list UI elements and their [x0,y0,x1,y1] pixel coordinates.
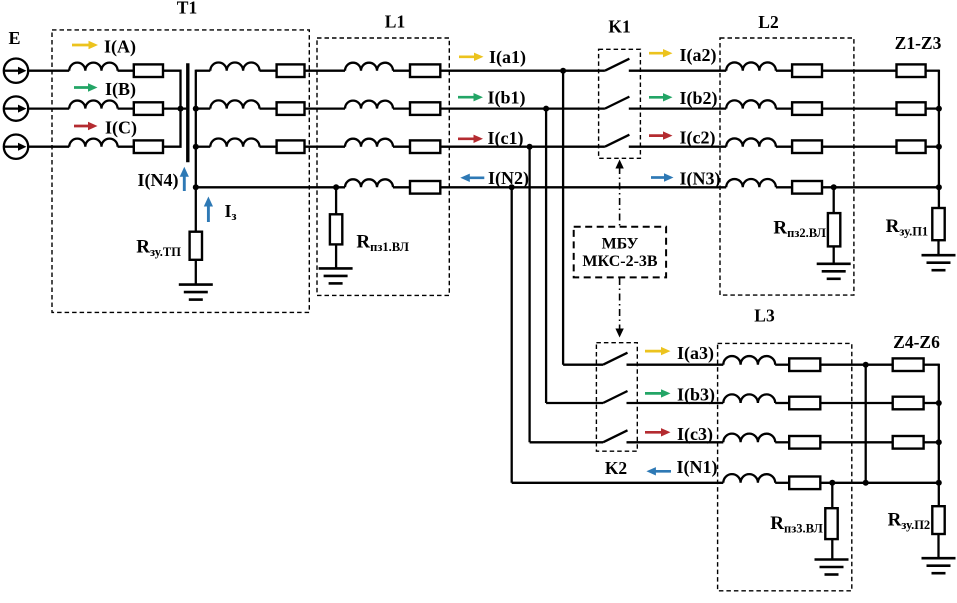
wire c1 from L1 to K1 [440,146,605,148]
svg-text:E: E [8,28,20,48]
resistor T1 secondary phase c [277,140,305,153]
ground T1 substation [179,285,213,300]
junction a1 branch [560,68,566,74]
inductor L2 phase n3 [726,179,776,187]
wire c3 branch to K2 [530,441,603,443]
wire branch b1 down to K2 [545,109,547,403]
wire [393,186,410,188]
wire b3 branch to K2 [546,402,603,404]
wire a2 to Z1 [822,70,897,72]
wire N1 to right bus [820,482,939,484]
svg-text:I(N3): I(N3) [680,169,721,190]
AC source E phase A [4,58,28,82]
resistor T1 secondary phase b [277,102,305,115]
wire [196,107,211,109]
wire a3 to Z4 [820,364,892,366]
transformer T1 core bar [186,63,189,162]
wire b3 to Z5 [820,402,892,404]
junction b1 branch [543,106,549,112]
switch K2 pole c [603,430,628,442]
resistor L2 phase n3 [792,181,822,194]
wire [196,146,211,148]
current arrow I(A) [72,41,98,49]
wire Z5 out [924,402,939,404]
load Z4 [893,358,924,371]
node N4 junction [193,184,199,190]
current arrow I(a1) [459,53,484,61]
wire N3 to right bus [822,186,939,188]
wire N1 row to L3 [512,482,724,484]
wire [775,482,789,484]
current arrow I(N3) [651,173,674,181]
junction bus Z3 [936,144,942,150]
wire node to Rзу.ТП [195,187,197,231]
wire [305,70,346,72]
wire Rпз1.ВЛ to ground [335,244,337,268]
svg-text:I(a3): I(a3) [677,343,714,364]
resistor L1 phase c [410,140,440,153]
wire [775,364,789,366]
switch K2 boundary box [596,343,637,452]
wire [393,146,410,148]
svg-text:I(B): I(B) [105,79,136,100]
wire [196,70,211,72]
AC source E phase C [4,135,28,159]
resistor Rпз1.ВЛ [330,214,342,244]
resistor Rпз2.ВЛ [828,213,840,246]
current arrow I(c3) [645,428,671,436]
svg-text:K2: K2 [605,458,627,478]
junction bus Z2 [936,106,942,112]
current arrow I(b2) [649,93,673,101]
junction secondary bus phase b [193,106,199,112]
current arrow I(c1) [458,135,483,143]
load Z3 [897,140,926,153]
inductor T1 secondary phase b [210,100,259,108]
inductor T1 primary phase C [69,139,117,147]
inductor L3 phase a3 [723,356,775,365]
wire neutral N2-N3 from L1 to L2 [440,186,726,188]
load Z5 [893,397,924,410]
current arrow I(b3) [645,389,671,397]
control line to K1 [615,160,623,227]
wire [775,402,789,404]
wire [260,70,277,72]
wire [775,441,789,443]
wire [118,146,134,148]
current arrow I(N4) [180,167,189,191]
current arrow I(b1) [458,93,483,101]
wire to Rпз2.ВЛ [833,187,835,213]
switch K2 pole a [603,353,628,365]
resistor T1 secondary phase a [277,64,305,77]
svg-text:I(C): I(C) [105,118,137,139]
wire to Rпз1.ВЛ [335,187,337,214]
svg-text:I(N4): I(N4) [138,170,179,191]
junction bus Z6 [936,439,942,445]
wire [118,107,134,109]
wire secondary bus [195,70,197,188]
wire a3 branch to K2 [563,364,603,366]
wire [776,70,792,72]
svg-text:МБУ: МБУ [602,236,639,253]
wire Rзу.П2 to ground [937,534,939,558]
wire Rпз3.ВЛ to ground [831,539,833,559]
junction N1 to Rпз3.ВЛ [829,480,835,486]
transformer T1 boundary box [52,30,309,313]
wire branch a1 down to K2 [562,71,564,365]
wire Z3 out [926,146,939,148]
wire c2 from K1 to L2 [629,146,726,148]
wire primary star bus [163,71,181,147]
current arrow I(c2) [649,131,673,139]
wire [305,107,346,109]
inductor L1 phase a [345,63,393,71]
inductor L1 phase b [345,101,393,109]
svg-text:МКС-2-3В: МКС-2-3В [582,253,658,270]
inductor T1 secondary phase a [210,62,259,70]
wire b1 from L1 to K1 [440,107,605,109]
inductor L3 phase c3 [723,434,775,443]
AC source E phase B [4,96,28,120]
resistor L1 phase n [410,181,440,194]
svg-text:I(b2): I(b2) [680,88,718,109]
wire Z1 out [926,70,939,72]
wire c3 from K2 to L3 [627,441,724,443]
svg-text:Z1-Z3: Z1-Z3 [895,33,942,53]
inductor L2 phase c2 [726,138,776,146]
wire b2 from K1 to L2 [629,107,726,109]
wire to Rпз3.ВЛ [831,483,833,508]
inductor L2 phase b2 [726,100,776,108]
svg-text:I(N2): I(N2) [488,168,529,189]
svg-text:Z4-Z6: Z4-Z6 [893,332,940,352]
inductor L3 phase n1 [723,474,775,483]
junction left bus N1 [863,480,869,486]
wire Z2 out [926,107,939,109]
wire [260,107,277,109]
inductor T1 primary phase B [69,101,117,109]
wire primary phase B to core [163,107,186,109]
line inductance L2 boundary box [720,38,854,295]
svg-text:L1: L1 [385,12,405,32]
inductor L1 phase c [345,139,393,147]
switch K1 boundary box [599,49,641,158]
inductor L3 phase b3 [723,394,775,403]
junction bus N3 [936,184,942,190]
resistor L1 phase a [410,64,440,77]
wire branch N down to N1 row [511,187,513,483]
wire a1 from L1 to K1 [440,70,605,72]
wire Rзу.ТП to ground [195,260,197,285]
resistor L3 phase n1 [789,477,820,490]
resistor Rпз3.ВЛ [825,508,837,539]
junction neutral to Rпз1.ВЛ [333,184,339,190]
svg-text:L2: L2 [758,12,778,32]
resistor T1 primary phase C [134,140,163,153]
switch K1 pole b [605,97,630,109]
wire [118,70,134,72]
resistor T1 primary phase A [134,64,163,77]
svg-text:I(c1): I(c1) [488,128,524,149]
wire right bus load 2 [938,364,940,507]
wire b3 from K2 to L3 [627,402,724,404]
inductor T1 primary phase A [69,63,117,71]
wire phase B source to T1 [28,107,69,109]
ground Rзу.П2 [922,558,956,573]
resistor L2 phase b2 [792,102,822,115]
current arrow I(a2) [649,49,673,57]
line inductance L3 boundary box [718,343,852,590]
wire [776,107,792,109]
svg-text:T1: T1 [177,0,197,18]
resistor L1 phase b [410,102,440,115]
wire [776,186,792,188]
control line to K2 [615,278,623,338]
junction left bus a3 [863,362,869,368]
wire Z6 out [924,441,939,443]
resistor Rзу.П2 [932,506,944,534]
svg-text:I(A): I(A) [104,37,136,58]
wire c3 to Z6 [820,441,892,443]
line inductance L1 boundary box [317,38,449,295]
svg-text:L3: L3 [754,306,775,326]
wire phase A source to T1 [28,70,69,72]
wire branch c1 down to K2 [528,147,530,443]
svg-text:I(N1): I(N1) [677,457,718,478]
current arrow I(N2) [460,174,484,182]
svg-text:I(c3): I(c3) [677,424,713,445]
resistor Rзу.ТП [190,232,202,260]
switch K2 pole b [603,391,628,403]
wire Rпз2.ВЛ to ground [833,246,835,263]
wire left bus a3 to N1 [865,365,867,483]
junction c1 branch [527,144,533,150]
control unit МБУ МКС-2-3В box [574,227,666,278]
svg-text:K1: K1 [608,17,630,37]
load Z6 [893,436,924,449]
junction N3 to Rпз2.ВЛ [831,184,837,190]
resistor L3 phase c3 [789,436,820,449]
wire [260,146,277,148]
svg-text:I(a1): I(a1) [489,47,526,68]
wire [776,146,792,148]
resistor T1 primary phase B [134,102,163,115]
current arrow I3 [204,197,213,223]
svg-text:I(b3): I(b3) [677,385,715,406]
svg-text:I(a2): I(a2) [680,45,717,66]
switch K1 pole c [605,135,630,147]
current arrow I(C) [74,122,98,130]
junction N2 branch [509,184,515,190]
current arrow I(N1) [646,467,671,475]
current arrow I(B) [74,83,98,91]
wire Rзу.П1 to ground [937,240,939,255]
wire [393,70,410,72]
ground Rпз3.ВЛ [815,560,849,575]
svg-text:I(b1): I(b1) [488,88,526,109]
switch K1 pole a [605,59,630,71]
wire a3 from K2 to L3 [627,364,724,366]
load Z1 [897,64,926,77]
wire neutral N to L1 [196,186,345,188]
wire phase C source to T1 [28,146,69,148]
ground Rзу.П1 [922,255,956,270]
inductor L1 phase n [345,179,393,187]
resistor L2 phase c2 [792,140,822,153]
wire b2 to Z2 [822,107,897,109]
inductor L2 phase a2 [726,62,776,70]
junction primary star point [178,106,184,112]
resistor L3 phase b3 [789,397,820,410]
ground Rпз1.ВЛ [319,268,353,283]
wire a2 from K1 to L2 [629,70,726,72]
wire right bus load 1 [938,70,940,208]
resistor L3 phase a3 [789,358,820,371]
svg-text:I(c2): I(c2) [680,128,716,149]
inductor T1 secondary phase c [210,138,259,146]
ground Rпз2.ВЛ [817,264,851,279]
resistor L2 phase a2 [792,64,822,77]
current arrow I(a3) [645,347,671,355]
junction bus N1 [936,480,942,486]
wire [305,146,346,148]
wire c2 to Z3 [822,146,897,148]
wire Z4 out [924,364,939,366]
junction secondary bus phase c [193,144,199,150]
junction bus Z5 [936,400,942,406]
resistor Rзу.П1 [932,208,944,240]
wire [393,107,410,109]
load Z2 [897,102,926,115]
